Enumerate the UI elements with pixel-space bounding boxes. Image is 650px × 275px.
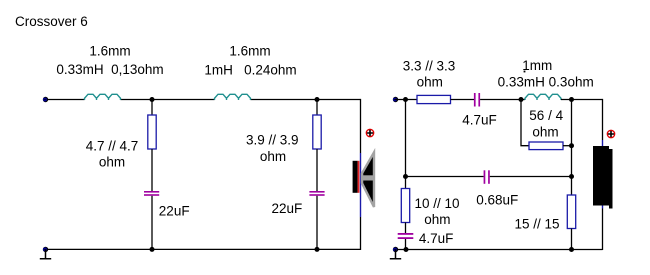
inductor L2 (215, 94, 251, 100)
svg-text:0.68uF: 0.68uF (476, 192, 518, 207)
ground terminal node left (43, 247, 48, 252)
wire tweeter bottom vertical (602, 209, 604, 251)
middle wire left part (406, 176, 484, 178)
wire between L1 and L2 (121, 99, 215, 101)
node junction A (top of branch 1) (150, 97, 155, 102)
bottom wire right circuit (396, 249, 603, 251)
wire tweeter blue lead top (602, 140, 604, 146)
svg-text:22uF: 22uF (272, 201, 303, 216)
node junction C (top left right-circuit) (403, 97, 408, 102)
node junction F (R4 right) (569, 143, 574, 148)
node junction D (left of L3) (519, 97, 524, 102)
woofer cone mid band (362, 175, 375, 180)
inductor L1 (85, 94, 121, 100)
wire right edge lower (from woofer) (360, 217, 362, 250)
ground symbol right (390, 250, 401, 259)
tweeter body main (593, 146, 609, 206)
svg-text:1.6mm: 1.6mm (89, 44, 130, 59)
woofer cone neck (361, 173, 363, 183)
woofer polarity mark (366, 129, 373, 136)
svg-text:22uF: 22uF (159, 204, 190, 219)
svg-text:1.6mm: 1.6mm (229, 44, 270, 59)
woofer red stripe (358, 161, 360, 193)
resistor R3 3.3//3.3 (417, 95, 451, 103)
resistor R1 4.7//4.7 (148, 115, 156, 149)
svg-text:15 // 15: 15 // 15 (515, 217, 560, 232)
wire branch2 middle (316, 149, 318, 191)
wire left vertical x405 upper (405, 100, 407, 189)
svg-text:ohm: ohm (532, 125, 558, 140)
ground terminal node right (393, 247, 398, 252)
resistor R6 10//10 (401, 189, 409, 223)
svg-text:ohm: ohm (417, 75, 443, 90)
svg-text:1mH 0.24ohm: 1mH 0.24ohm (204, 63, 296, 78)
node junction E (right of L3) (569, 97, 574, 102)
svg-text:ohm: ohm (424, 212, 450, 227)
capacitor C1 22uF plates (144, 191, 159, 193)
wire branch1 lower (151, 196, 153, 250)
wire branch1 upper (151, 100, 153, 116)
node bottom junction I (404, 247, 409, 252)
wire C6 down (405, 239, 407, 250)
node bottom junction J (569, 247, 574, 252)
svg-text:3.3 // 3.3: 3.3 // 3.3 (403, 58, 456, 73)
wire R3 to C3 (451, 99, 475, 101)
wire tweeter blue lead bottom (602, 206, 604, 209)
svg-text:Crossover 6: Crossover 6 (15, 14, 88, 29)
tweeter body tab (609, 149, 613, 209)
woofer cone black (362, 152, 374, 207)
bottom wire left circuit (46, 248, 361, 250)
input terminal node right circuit (393, 97, 398, 102)
node bottom of branch1 (150, 247, 155, 252)
wire branch2 lower (316, 196, 318, 250)
wire from L2 to top-right corner (251, 99, 361, 101)
capacitor C5 0.68uF plates (484, 170, 486, 184)
resistor R5 15//15 (567, 195, 575, 229)
svg-text:4.7uF: 4.7uF (462, 113, 497, 128)
node junction G (middle wire right) (569, 174, 574, 179)
wire branch1 middle (151, 149, 153, 191)
wire E vertical down (571, 100, 573, 196)
input terminal node left circuit (43, 97, 48, 102)
svg-text:0.33mH 0,13ohm: 0.33mH 0,13ohm (56, 62, 163, 77)
resistor R4 56/4 (529, 142, 563, 150)
wire C3 to L3 (480, 99, 525, 101)
wire L3 right to corner (561, 99, 603, 101)
wire tweeter top vertical (602, 99, 604, 140)
node bottom of branch2 (315, 247, 320, 252)
svg-text:1mm: 1mm (522, 58, 552, 73)
woofer magnet (353, 161, 358, 193)
tweeter polarity mark (607, 130, 614, 137)
wire down from D to R4 (521, 100, 529, 146)
wire R5 down to bottom (571, 229, 573, 250)
middle wire right part (490, 176, 572, 178)
inductor L3 (525, 94, 561, 100)
svg-text:ohm: ohm (99, 155, 125, 170)
node junction H (middle wire left) (403, 174, 408, 179)
wire R4 to E vertical (563, 145, 572, 147)
ground symbol left (40, 249, 51, 258)
wire woofer blue lead (360, 153, 362, 217)
label L3 dot under 1 (524, 71, 526, 73)
svg-text:3.9 // 3.9: 3.9 // 3.9 (246, 133, 299, 148)
wire input to junction (396, 99, 418, 101)
svg-text:10 // 10: 10 // 10 (414, 196, 459, 211)
svg-text:4.7 // 4.7: 4.7 // 4.7 (86, 138, 139, 153)
capacitor C3 4.7uF plates (474, 93, 476, 107)
capacitor C2 22uF plates (309, 191, 324, 193)
node junction B (top of branch 2) (315, 97, 320, 102)
wire R6 to C6 (405, 223, 407, 234)
resistor R2 3.9//3.9 (313, 115, 321, 149)
wire right edge upper (to woofer) (360, 99, 362, 153)
capacitor C6 4.7uF plates (398, 233, 414, 235)
wire top-left segment (input to L1) (46, 99, 85, 101)
svg-text:ohm: ohm (260, 149, 286, 164)
svg-text:0.33mH 0.3ohm: 0.33mH 0.3ohm (498, 75, 594, 90)
svg-text:4.7uF: 4.7uF (419, 231, 454, 246)
svg-text:56 / 4: 56 / 4 (529, 108, 563, 123)
wire branch2 upper (316, 100, 318, 116)
